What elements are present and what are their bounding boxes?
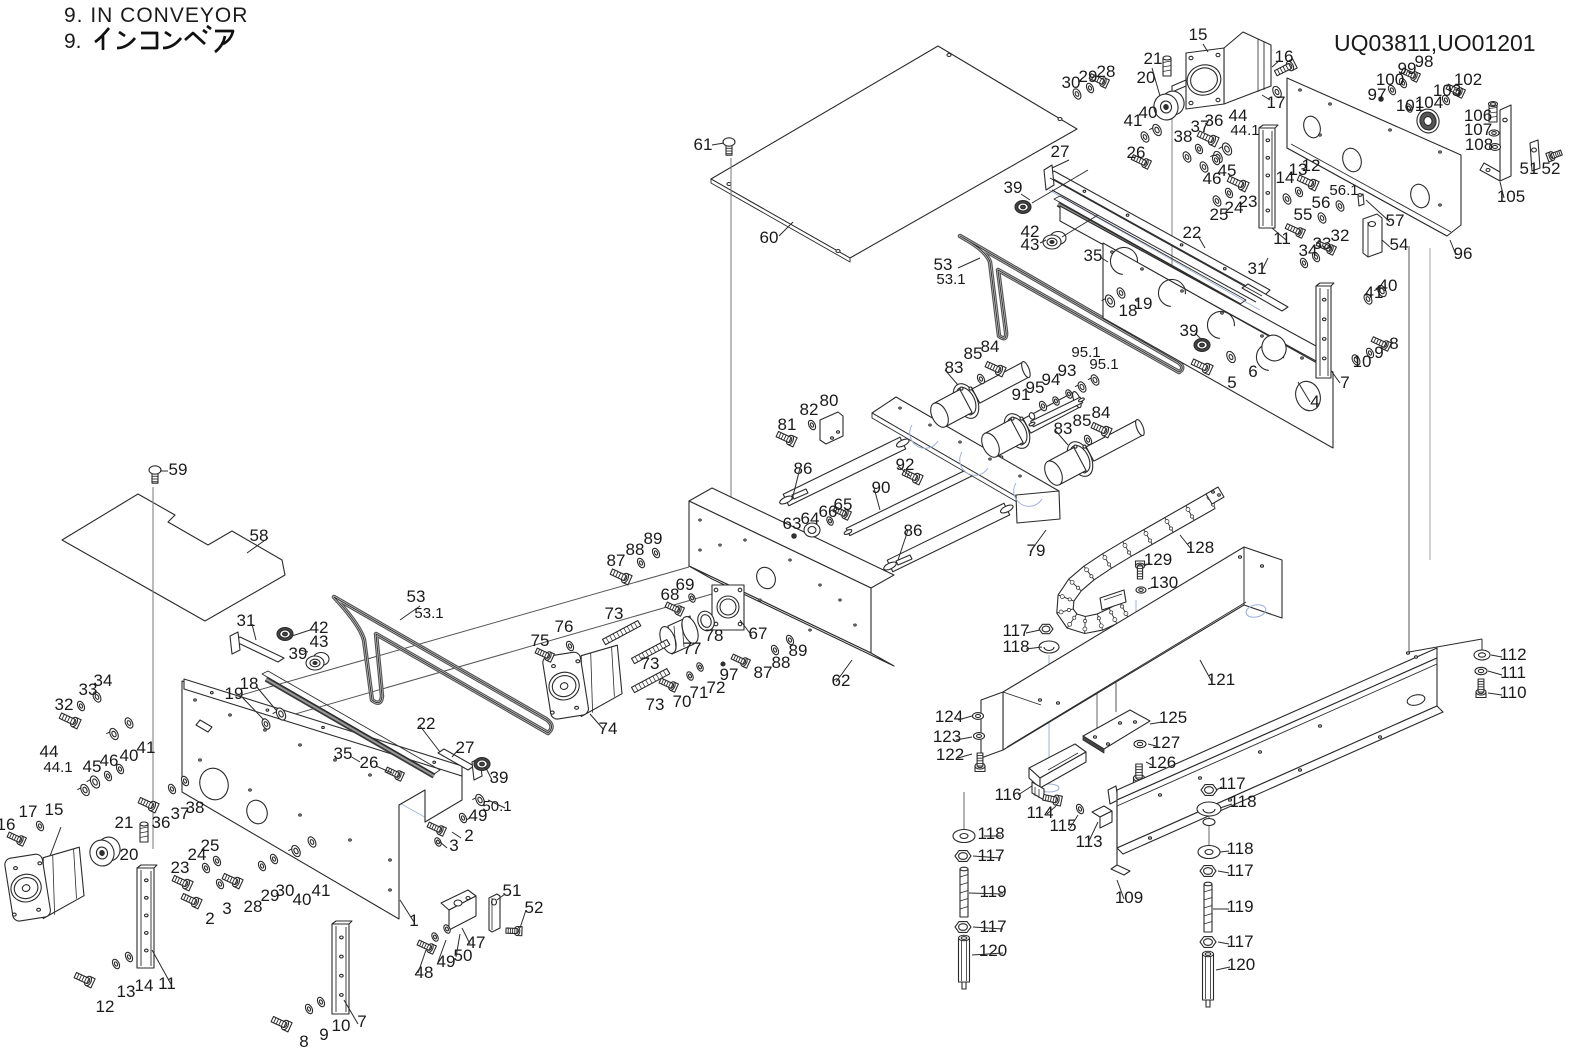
chain end bracket bbox=[1100, 590, 1126, 610]
washer 24 bbox=[1224, 187, 1234, 199]
screw 21 lower bbox=[140, 824, 148, 842]
wire from plate 125 b bbox=[1096, 640, 1098, 736]
roller 42/43 upper bbox=[1050, 232, 1066, 245]
nut 117 a bbox=[1039, 624, 1053, 633]
svg-text:16: 16 bbox=[0, 815, 15, 834]
svg-text:110: 110 bbox=[1499, 683, 1526, 702]
svg-text:118: 118 bbox=[1002, 637, 1029, 656]
nut 95.1 a bbox=[1076, 381, 1087, 394]
wire projection left 1 bbox=[182, 567, 689, 712]
chain rail inner bbox=[1073, 508, 1215, 616]
pin 97 bbox=[1379, 97, 1383, 101]
svg-text:1: 1 bbox=[409, 911, 418, 930]
channel 109 left end bbox=[1116, 806, 1118, 865]
wire 118-118 bbox=[1208, 815, 1210, 845]
post 7 upper bbox=[1316, 286, 1331, 378]
washer 24 l bbox=[201, 862, 211, 874]
guide circle on 79 bbox=[910, 425, 938, 448]
screw 55 bbox=[1297, 228, 1305, 238]
pulley 20 bbox=[1151, 91, 1181, 122]
svg-text:35: 35 bbox=[1084, 246, 1103, 265]
wire vertical from screw 59 bbox=[152, 487, 154, 849]
svg-text:34: 34 bbox=[1299, 241, 1318, 260]
beam 62 web bbox=[689, 501, 871, 653]
frame 96 face bbox=[1287, 78, 1461, 236]
washer 94 bbox=[1051, 396, 1060, 407]
hole in 96 bbox=[1340, 146, 1365, 174]
svg-text:126: 126 bbox=[1148, 753, 1176, 772]
washer 10 u bbox=[1350, 354, 1361, 367]
svg-text:53: 53 bbox=[407, 587, 426, 606]
svg-text:52: 52 bbox=[525, 898, 544, 917]
svg-text:40: 40 bbox=[293, 890, 312, 909]
screw 28 bbox=[1101, 78, 1109, 88]
plate 121 left flap bbox=[981, 692, 1003, 758]
guide circle on 79 b bbox=[960, 452, 988, 475]
screw 68 bbox=[676, 606, 684, 616]
washer 66 bbox=[825, 516, 834, 527]
svg-text:34: 34 bbox=[94, 671, 113, 690]
svg-text:86: 86 bbox=[904, 521, 923, 540]
svg-text:73: 73 bbox=[605, 604, 624, 623]
svg-text:3: 3 bbox=[449, 836, 458, 855]
svg-text:62: 62 bbox=[832, 671, 851, 690]
guide ellipse bbox=[1039, 784, 1059, 792]
bracket 105 strip bbox=[1500, 105, 1511, 181]
svg-text:127: 127 bbox=[1152, 733, 1180, 752]
svg-text:13: 13 bbox=[117, 982, 136, 1001]
guide diag lower frame 2 bbox=[215, 700, 430, 820]
roller 83 c bbox=[1086, 421, 1144, 462]
screw 84 b bbox=[1103, 427, 1112, 438]
svg-text:60: 60 bbox=[760, 228, 779, 247]
plate 1 side bbox=[182, 681, 462, 919]
guide diag beam 62 bbox=[690, 520, 860, 618]
svg-text:73: 73 bbox=[646, 695, 665, 714]
washer 19 u bbox=[1115, 287, 1126, 300]
svg-text:51: 51 bbox=[503, 881, 522, 900]
svg-text:59: 59 bbox=[169, 460, 188, 479]
screw 5 bbox=[1204, 364, 1213, 375]
svg-text:12: 12 bbox=[1302, 156, 1321, 175]
hole in 1 b bbox=[243, 797, 270, 826]
washer 49 r bbox=[458, 812, 468, 824]
nut 50.1 bbox=[474, 793, 486, 807]
svg-text:2: 2 bbox=[464, 826, 473, 845]
svg-text:85: 85 bbox=[1073, 411, 1092, 430]
nut 44 l bbox=[88, 774, 101, 789]
knob 39 d bbox=[474, 758, 490, 771]
screw 81 bbox=[788, 436, 797, 447]
knob 39 bbox=[1015, 201, 1031, 214]
washer 69 bbox=[687, 593, 696, 604]
washer 17 bbox=[1271, 85, 1283, 99]
svg-text:3: 3 bbox=[222, 899, 231, 918]
svg-text:32: 32 bbox=[1331, 226, 1350, 245]
screw 98 bbox=[1412, 72, 1420, 82]
hole in 4 bbox=[1258, 332, 1289, 365]
svg-text:125: 125 bbox=[1159, 708, 1187, 727]
washer 25 l bbox=[212, 855, 222, 867]
nut 117 b bbox=[1201, 785, 1217, 796]
wire vertical from screw 61 bbox=[730, 158, 732, 516]
svg-text:70: 70 bbox=[673, 692, 692, 711]
screw 36 bbox=[1210, 136, 1219, 147]
screw 16 l bbox=[18, 836, 26, 846]
bracket 113 tab bbox=[1108, 786, 1118, 804]
channel 109 top flange bbox=[1117, 648, 1437, 800]
switch 116 connector bbox=[1032, 782, 1044, 800]
guide circle on 79 c bbox=[1014, 483, 1042, 506]
pulley 20 back bbox=[1159, 89, 1186, 118]
svg-text:87: 87 bbox=[754, 663, 773, 682]
motor shaft bbox=[1172, 80, 1186, 92]
svg-text:84: 84 bbox=[1092, 403, 1111, 422]
hole in 96 bbox=[1301, 114, 1323, 140]
collar 64 bbox=[804, 523, 820, 537]
panel 58 sheet bbox=[62, 494, 285, 621]
screw 16 bbox=[1288, 59, 1298, 71]
svg-text:51: 51 bbox=[1520, 159, 1539, 178]
svg-text:26: 26 bbox=[360, 753, 379, 772]
svg-text:39: 39 bbox=[490, 768, 509, 787]
svg-text:21: 21 bbox=[115, 813, 134, 832]
washer 9 l bbox=[304, 1003, 314, 1015]
svg-text:7: 7 bbox=[1340, 373, 1349, 392]
svg-text:31: 31 bbox=[1248, 259, 1267, 278]
guide diag upper frame 2 bbox=[1049, 190, 1260, 310]
washer 46 bbox=[1198, 161, 1209, 174]
pulley 20 back b bbox=[95, 835, 122, 864]
svg-text:78: 78 bbox=[705, 626, 724, 645]
svg-text:9: 9 bbox=[1374, 343, 1383, 362]
svg-text:41: 41 bbox=[312, 881, 331, 900]
svg-text:84: 84 bbox=[981, 337, 1000, 356]
plate 4 side bbox=[1103, 243, 1333, 448]
channel 109 bottom flange bbox=[1117, 706, 1443, 854]
wire vertical from screw 61 over panel bbox=[730, 158, 732, 516]
nut 117 d bbox=[1200, 937, 1216, 948]
washer 103 bbox=[1441, 94, 1451, 106]
washer 123 bbox=[974, 733, 985, 740]
washer 107 bbox=[1489, 130, 1499, 136]
svg-text:36: 36 bbox=[152, 813, 171, 832]
wire axis 39 bbox=[1032, 170, 1088, 203]
pin 97 c bbox=[721, 662, 725, 666]
nut 44.1 l bbox=[79, 783, 91, 797]
svg-text:53.1: 53.1 bbox=[414, 605, 443, 622]
washer 118 b bbox=[1197, 802, 1221, 816]
washer 41 lb bbox=[306, 836, 317, 849]
rail 27 lower cap bbox=[472, 758, 482, 780]
svg-text:52: 52 bbox=[1542, 159, 1561, 178]
washer 118 a bbox=[1039, 641, 1059, 653]
svg-text:10: 10 bbox=[1353, 352, 1372, 371]
washer 13 l bbox=[111, 958, 121, 970]
svg-text:118: 118 bbox=[1229, 792, 1256, 811]
washer 93 bbox=[1064, 389, 1073, 400]
screw 26 lower bbox=[396, 771, 404, 781]
svg-text:43: 43 bbox=[1021, 235, 1040, 254]
hole arc in 4 bbox=[1158, 279, 1185, 306]
rod 73 bbox=[603, 621, 641, 645]
nut 117 f bbox=[955, 922, 971, 933]
screw 12 bbox=[1310, 180, 1319, 191]
svg-text:10: 10 bbox=[332, 1016, 351, 1035]
svg-text:40: 40 bbox=[1139, 103, 1158, 122]
washer 45 l bbox=[103, 770, 113, 782]
washer 37 bbox=[1194, 143, 1204, 155]
screw 32 bbox=[1328, 245, 1336, 255]
washer 34 bbox=[1299, 257, 1309, 269]
plate 125 bbox=[1083, 710, 1150, 749]
washer 13 bbox=[1294, 186, 1304, 198]
svg-text:12: 12 bbox=[96, 997, 115, 1016]
washer 50 bbox=[442, 924, 451, 935]
svg-text:75: 75 bbox=[531, 631, 550, 650]
washer 88 r bbox=[770, 644, 780, 656]
svg-text:115: 115 bbox=[1049, 816, 1076, 835]
screw 52 bbox=[1546, 152, 1554, 162]
wire projection left 2 bbox=[205, 594, 712, 740]
screw 21 bbox=[1163, 58, 1171, 76]
washer 85 b bbox=[1083, 434, 1093, 446]
svg-text:22: 22 bbox=[417, 714, 436, 733]
flange 67 bbox=[712, 585, 744, 630]
nut 18 lower bbox=[274, 706, 287, 721]
roller 83 b bbox=[1023, 393, 1080, 434]
svg-text:72: 72 bbox=[707, 678, 726, 697]
shaft 91 thin bbox=[1031, 397, 1083, 427]
hole in 4 b bbox=[1292, 378, 1325, 414]
motor 15 body bbox=[1224, 32, 1271, 104]
screw 110 bbox=[1476, 692, 1486, 698]
svg-text:91: 91 bbox=[1012, 385, 1031, 404]
nut 18 u bbox=[1103, 293, 1116, 308]
washer 118 b2 bbox=[1203, 819, 1215, 826]
stud 119 l bbox=[960, 869, 968, 917]
washer 82 bbox=[807, 419, 817, 431]
standoff 120 l bbox=[959, 938, 970, 982]
washer 33 bbox=[1311, 251, 1321, 263]
washer 14 bbox=[1281, 193, 1292, 206]
svg-text:117: 117 bbox=[979, 917, 1006, 936]
screw 87 l bbox=[623, 574, 632, 585]
wire vertical from screw 21 bbox=[1171, 86, 1173, 268]
washer 41 l bbox=[123, 717, 134, 730]
svg-text:111: 111 bbox=[1500, 663, 1526, 682]
svg-text:2: 2 bbox=[205, 909, 214, 928]
svg-text:68: 68 bbox=[661, 585, 680, 604]
rail 31 end cap bbox=[230, 632, 240, 654]
screw 65 bbox=[843, 510, 851, 520]
svg-text:4: 4 bbox=[1310, 392, 1319, 411]
washer 127 bbox=[1134, 740, 1146, 747]
svg-text:130: 130 bbox=[1150, 573, 1178, 592]
post 11 upper bbox=[1259, 128, 1275, 228]
screw 23 bbox=[1240, 181, 1249, 192]
hole arc in 4 bbox=[1110, 247, 1137, 274]
rail 27 lower bbox=[438, 749, 474, 770]
washer 72 bbox=[695, 662, 704, 673]
svg-text:77: 77 bbox=[683, 639, 702, 658]
shaft 86 b bbox=[887, 503, 1010, 572]
svg-text:29: 29 bbox=[1079, 67, 1098, 86]
screw 8 l bbox=[283, 1021, 292, 1032]
svg-text:19: 19 bbox=[225, 684, 244, 703]
nut 117 e bbox=[955, 851, 971, 862]
svg-text:105: 105 bbox=[1497, 187, 1525, 206]
coupling 78 bbox=[695, 609, 717, 633]
svg-text:123: 123 bbox=[933, 727, 961, 746]
svg-text:122: 122 bbox=[936, 745, 964, 764]
svg-text:118: 118 bbox=[1226, 839, 1253, 858]
screw 26 bbox=[1143, 159, 1151, 169]
guide oval on 121 bbox=[1245, 603, 1267, 619]
svg-text:15: 15 bbox=[45, 800, 64, 819]
channel 109 left foot bbox=[1111, 865, 1130, 875]
svg-text:95.1: 95.1 bbox=[1089, 356, 1118, 373]
washer 29 l bbox=[257, 860, 267, 872]
svg-text:15: 15 bbox=[1189, 25, 1208, 44]
svg-text:9: 9 bbox=[319, 1025, 328, 1044]
beam 79 end flap bbox=[1016, 491, 1060, 523]
washer 118 c bbox=[1198, 846, 1220, 859]
svg-text:83: 83 bbox=[945, 358, 964, 377]
motor 15 lower bbox=[43, 847, 84, 918]
wire projection right 1 bbox=[1408, 246, 1410, 652]
bracket 113 bbox=[1092, 806, 1112, 817]
wire axis 42 bbox=[1062, 215, 1098, 237]
panel 60 sheet bbox=[711, 46, 1077, 258]
beam 79 plate bbox=[872, 397, 1059, 508]
svg-text:14: 14 bbox=[135, 976, 154, 995]
belt 53 lower bbox=[334, 597, 552, 733]
nut 95.1 b bbox=[1089, 374, 1100, 387]
guide vertical blue 21 bbox=[1171, 268, 1173, 332]
rail 27 upper bbox=[1048, 171, 1270, 296]
hole in 1 bbox=[195, 764, 232, 804]
washer 76 bbox=[565, 640, 575, 652]
svg-text:38: 38 bbox=[186, 798, 205, 817]
screw 70 bbox=[670, 682, 678, 692]
knob 39 c bbox=[277, 628, 293, 641]
svg-text:43: 43 bbox=[310, 632, 329, 651]
svg-text:112: 112 bbox=[1499, 645, 1526, 664]
standoff 120 r bbox=[1203, 954, 1214, 1000]
svg-text:53.1: 53.1 bbox=[936, 271, 965, 288]
svg-text:16: 16 bbox=[1275, 47, 1294, 66]
svg-text:81: 81 bbox=[778, 415, 797, 434]
bracket 47 plate bbox=[441, 890, 476, 910]
washer 112 bbox=[1474, 650, 1490, 660]
screw 75 bbox=[546, 652, 554, 662]
svg-text:129: 129 bbox=[1144, 550, 1172, 569]
svg-text:17: 17 bbox=[1267, 93, 1286, 112]
screw 52 lower bbox=[517, 927, 522, 936]
washer 89 l bbox=[651, 547, 661, 559]
svg-text:21: 21 bbox=[1144, 49, 1163, 68]
svg-text:27: 27 bbox=[456, 738, 475, 757]
svg-text:27: 27 bbox=[1051, 142, 1070, 161]
oval hole 109 bbox=[1406, 693, 1426, 707]
svg-text:124: 124 bbox=[935, 707, 963, 726]
svg-text:113: 113 bbox=[1075, 832, 1102, 851]
svg-text:117: 117 bbox=[977, 846, 1004, 865]
svg-text:20: 20 bbox=[120, 845, 139, 864]
hole in 96 bbox=[1408, 182, 1433, 210]
washer 34 l bbox=[91, 691, 102, 704]
bearing 104 bbox=[1414, 107, 1441, 136]
washer 25 bbox=[1211, 195, 1222, 208]
bracket 80 bbox=[820, 412, 843, 444]
svg-text:56: 56 bbox=[1312, 193, 1331, 212]
guide diag lower frame bbox=[200, 712, 390, 822]
svg-text:58: 58 bbox=[250, 526, 269, 545]
washer 118 d bbox=[953, 830, 975, 843]
svg-text:46: 46 bbox=[100, 751, 119, 770]
block 54 bbox=[1363, 214, 1382, 257]
guide diag upper frame bbox=[1110, 260, 1240, 330]
nut 44.1 bbox=[1212, 150, 1224, 164]
svg-text:44.1: 44.1 bbox=[43, 759, 72, 776]
svg-text:80: 80 bbox=[820, 391, 839, 410]
screw 48 bbox=[428, 944, 436, 954]
motor 15 face bbox=[1186, 48, 1224, 109]
svg-text:8: 8 bbox=[299, 1032, 308, 1050]
svg-text:108: 108 bbox=[1465, 135, 1493, 154]
svg-text:8: 8 bbox=[1389, 334, 1398, 353]
rod 73 bbox=[632, 669, 670, 693]
svg-text:41: 41 bbox=[1365, 283, 1384, 302]
washer 41 bbox=[1139, 131, 1150, 144]
svg-text:87: 87 bbox=[607, 551, 626, 570]
rail 35 upper bbox=[1058, 204, 1240, 306]
svg-text:63: 63 bbox=[783, 514, 802, 533]
screw 114 bbox=[1055, 795, 1062, 806]
screw 87 r bbox=[742, 658, 750, 668]
screw 129 bbox=[1136, 561, 1145, 566]
rod 73 bbox=[632, 640, 670, 664]
pin 91 bbox=[1028, 412, 1036, 420]
svg-text:120: 120 bbox=[1227, 955, 1255, 974]
svg-text:UQ03811,UO01201: UQ03811,UO01201 bbox=[1334, 30, 1536, 56]
plate 121 box bbox=[1003, 547, 1282, 750]
pin 63 bbox=[792, 534, 796, 538]
washer 45 bbox=[1211, 154, 1221, 166]
svg-text:67: 67 bbox=[749, 624, 768, 643]
nut 40 bbox=[1151, 123, 1163, 137]
screw 12 l bbox=[86, 977, 95, 988]
washer 41 r bbox=[1362, 293, 1373, 306]
svg-text:7: 7 bbox=[357, 1012, 366, 1031]
roller 42/43 lower bbox=[313, 653, 329, 666]
wire projection right 2 bbox=[1429, 248, 1431, 560]
washer 100 bbox=[1387, 84, 1397, 96]
svg-text:6: 6 bbox=[1248, 362, 1257, 381]
svg-text:96: 96 bbox=[1454, 244, 1473, 263]
svg-text:89: 89 bbox=[644, 529, 663, 548]
svg-text:19: 19 bbox=[1134, 294, 1153, 313]
screw 102 bbox=[1457, 88, 1465, 98]
plate 22 upper rail bbox=[1060, 206, 1316, 361]
washer 115 bbox=[1075, 803, 1085, 815]
washer 10 l bbox=[316, 996, 326, 1008]
svg-text:109: 109 bbox=[1115, 888, 1143, 907]
screw 59 bbox=[149, 466, 161, 474]
svg-text:32: 32 bbox=[55, 695, 74, 714]
screw 23 l bbox=[184, 880, 193, 891]
